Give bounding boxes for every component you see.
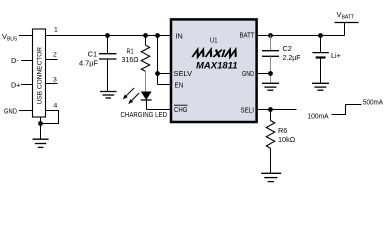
node VBUS label: [2, 32, 33, 43]
ground usb: [33, 139, 49, 147]
svg-text:2.2µF: 2.2µF: [283, 53, 302, 62]
waveform 100mA/500mA step: [308, 98, 384, 121]
wire main VBUS to IN: [46, 35, 172, 37]
ground battery: [312, 83, 329, 90]
svg-text:C1: C1: [88, 50, 97, 59]
svg-text:2: 2: [53, 52, 57, 59]
svg-text:4: 4: [54, 103, 58, 110]
pin 2 stub: [46, 52, 58, 60]
svg-text:IN: IN: [176, 32, 183, 41]
svg-text:BATT: BATT: [240, 30, 255, 39]
wire usb bottom to ground: [40, 117, 42, 139]
junction dot SELI: [268, 107, 273, 112]
svg-text:SELI: SELI: [241, 106, 255, 115]
svg-text:USB CONNECTOR: USB CONNECTOR: [37, 47, 44, 105]
svg-text:CHARGING LED: CHARGING LED: [121, 110, 168, 119]
op-amp style IC U1 MAX1811: [171, 19, 257, 122]
svg-text:CHG: CHG: [174, 105, 188, 114]
svg-text:R6: R6: [278, 126, 287, 135]
svg-text:10kΩ: 10kΩ: [278, 135, 296, 144]
svg-text:1: 1: [54, 27, 58, 34]
resistor R6: [266, 110, 295, 174]
svg-text:EN: EN: [175, 81, 184, 90]
node VBATT label: [335, 10, 359, 36]
ground R6: [261, 173, 281, 181]
pin 4 wire loop: [41, 103, 59, 124]
junction dot GND: [268, 71, 273, 76]
wire GND pin to C2 node: [258, 73, 271, 75]
node dot C1: [105, 33, 110, 38]
junction dot SELV: [155, 71, 160, 76]
node dot SELV branch: [155, 33, 160, 38]
USB connector J1: [33, 29, 46, 117]
pin 1 stub and number: [54, 27, 58, 34]
node D+ label: [11, 80, 33, 89]
svg-text:GND: GND: [242, 69, 254, 78]
svg-text:100mA: 100mA: [308, 111, 329, 120]
node dot battery: [318, 33, 323, 38]
node dot C2: [268, 33, 273, 38]
ground C2: [262, 83, 279, 90]
junction dot pin4: [38, 121, 43, 126]
svg-text:D-: D-: [11, 56, 19, 65]
ground C1: [100, 92, 117, 99]
svg-text:D+: D+: [11, 80, 21, 89]
pin 3 stub: [46, 77, 58, 84]
svg-text:316Ω: 316Ω: [122, 55, 140, 64]
svg-text:U1: U1: [210, 36, 218, 45]
capacitor C2: [262, 36, 301, 84]
wire LED to CHG pin: [147, 109, 172, 111]
wire BATT to VBATT: [258, 35, 345, 37]
svg-text:500mA: 500mA: [363, 98, 383, 107]
svg-text:SELV: SELV: [174, 69, 193, 78]
wire SELI: [258, 109, 297, 111]
node GND label: [4, 106, 33, 115]
svg-text:Li+: Li+: [331, 51, 341, 60]
maxim logo: [192, 50, 238, 57]
node dot R1: [143, 33, 148, 38]
wire SELV/EN branch: [158, 36, 172, 85]
svg-text:3: 3: [53, 77, 57, 84]
led emission arrows: [126, 88, 139, 101]
svg-text:MAX1811: MAX1811: [196, 61, 238, 72]
capacitor C1: [79, 36, 117, 92]
svg-text:4.7µF: 4.7µF: [79, 59, 99, 68]
LED charging, D1: [121, 88, 168, 119]
node D- label: [11, 56, 33, 65]
resistor R1: [122, 36, 150, 92]
svg-text:GND: GND: [4, 106, 17, 115]
battery Li+: [312, 36, 341, 84]
svg-text:C2: C2: [283, 44, 292, 53]
